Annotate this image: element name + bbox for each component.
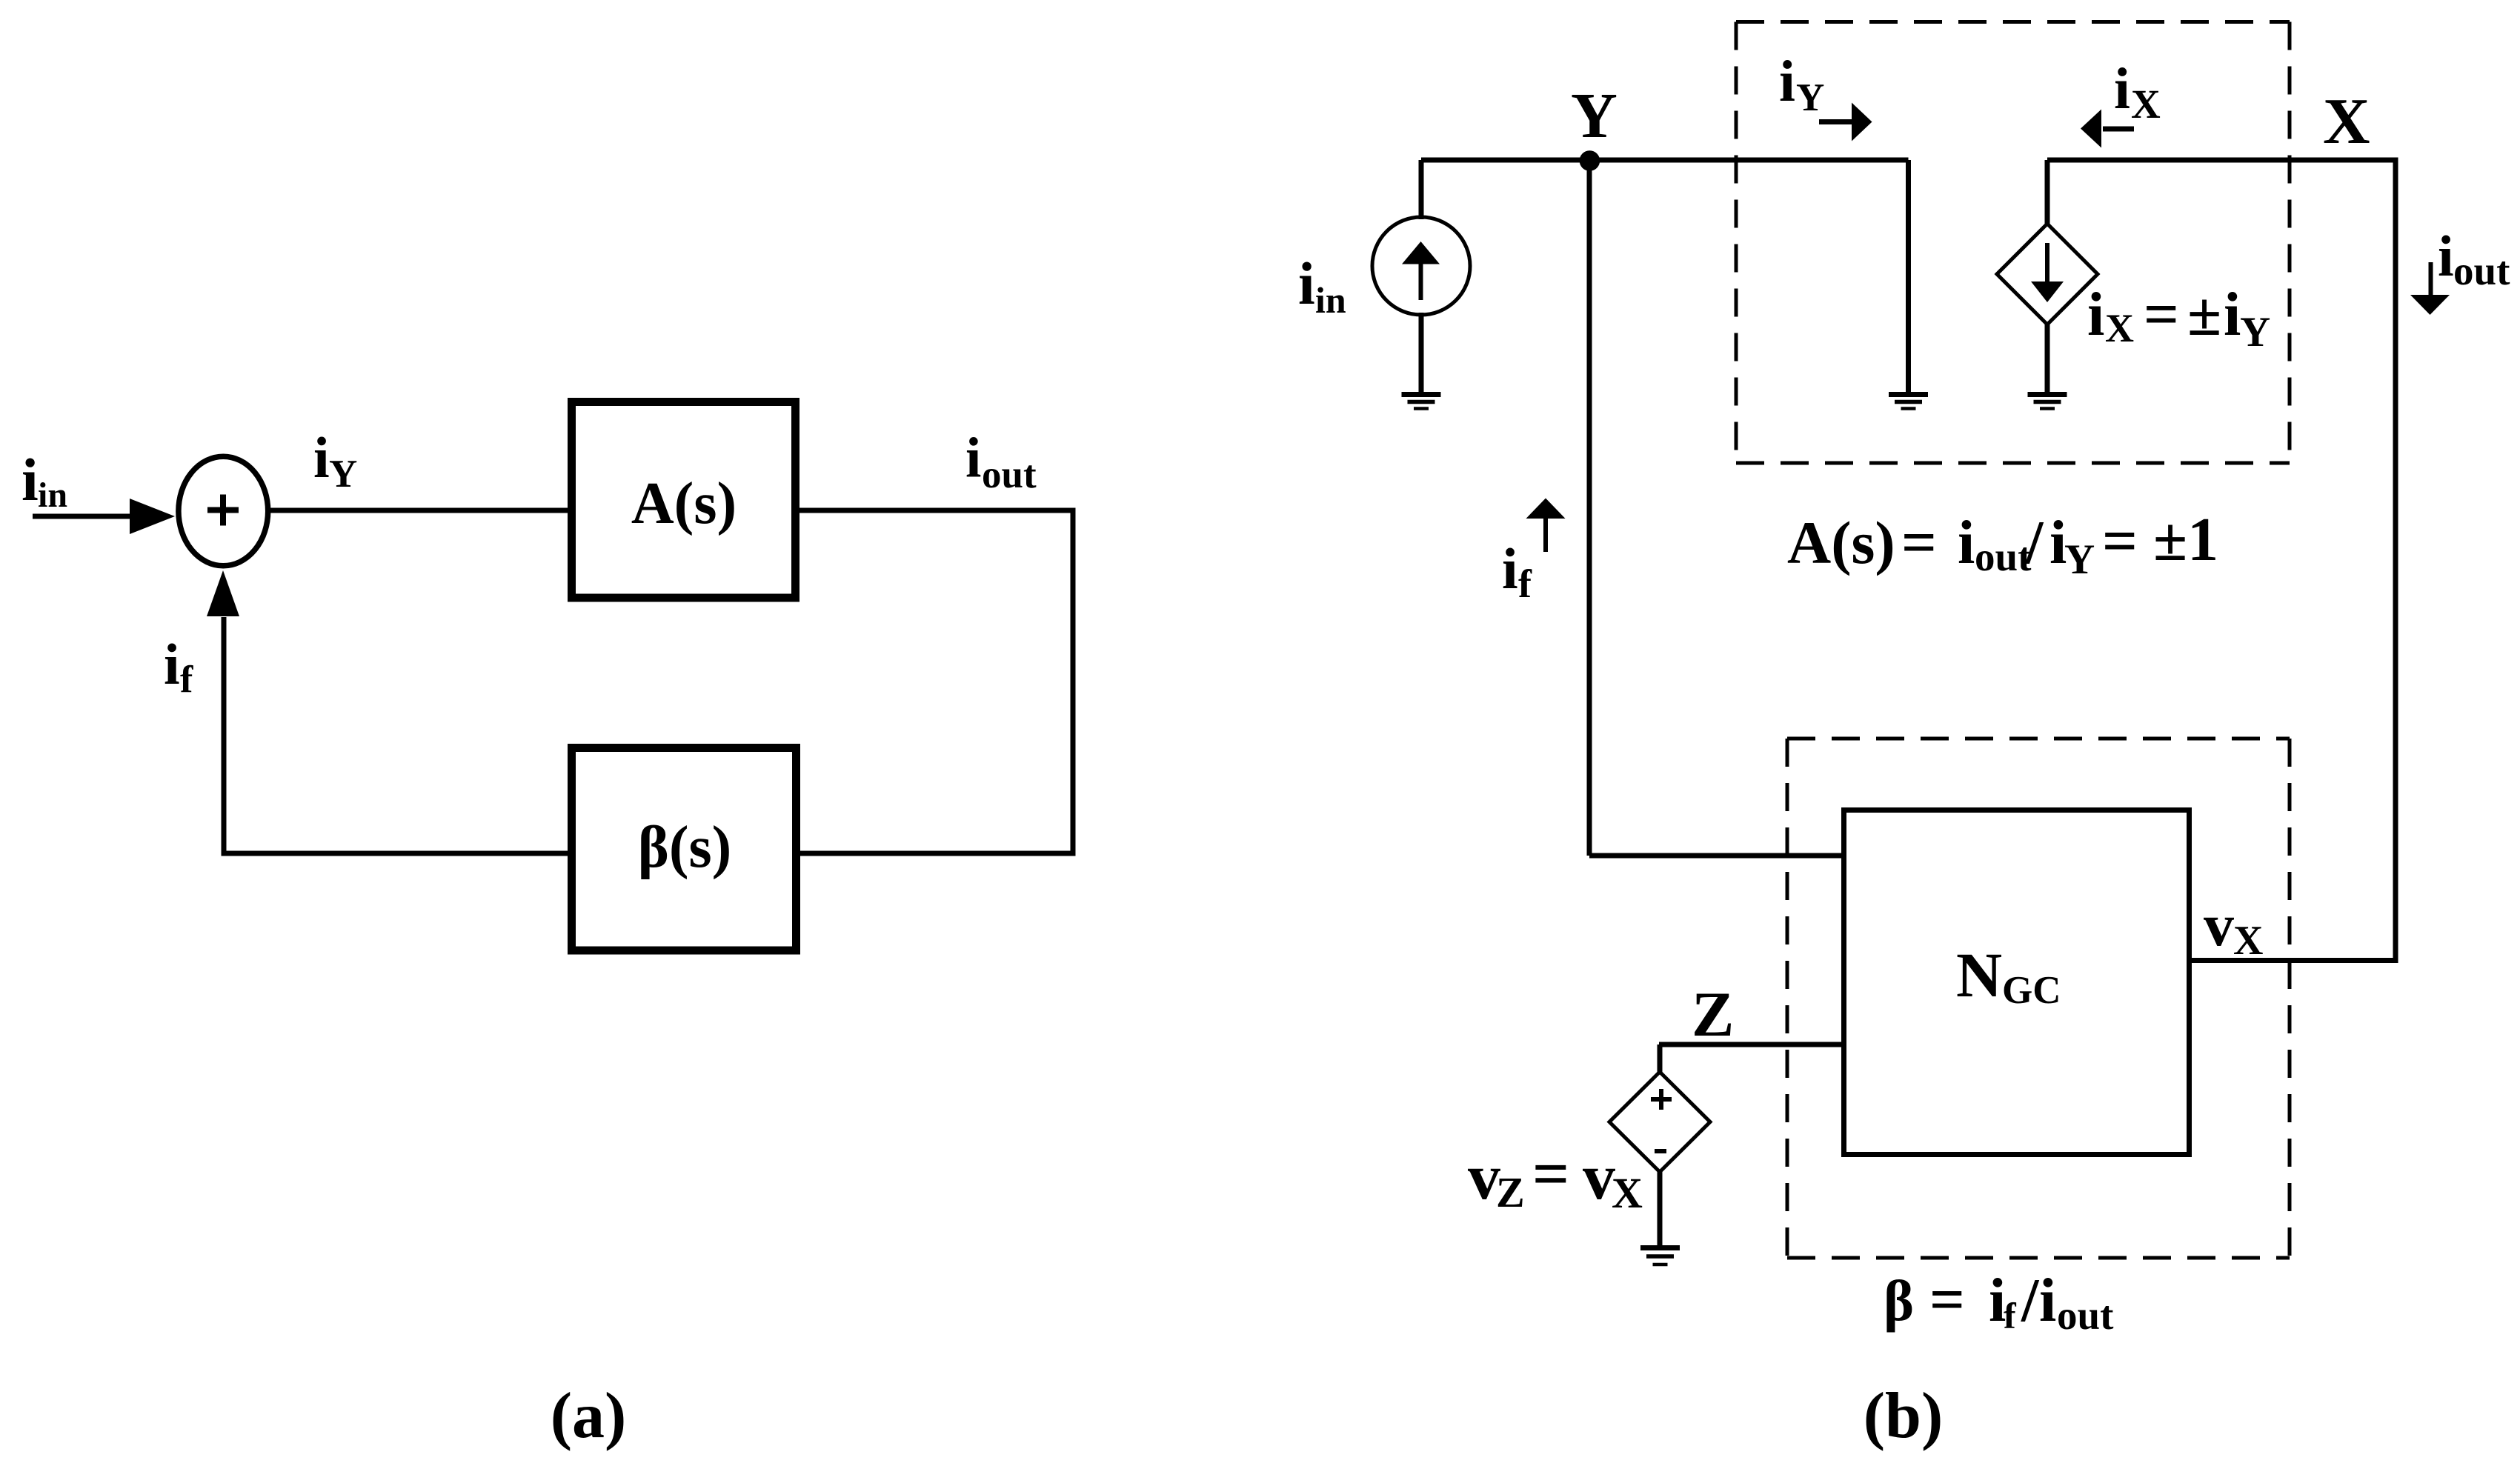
svg-text:β(s): β(s) [638,815,732,880]
wire Z [1659,1042,1844,1047]
svg-text:GC: GC [2002,969,2061,1012]
ground of i_Y stub [1889,395,1928,409]
svg-text:Y: Y [2240,309,2270,356]
wire Y down to feedback [1587,160,1592,856]
label i_in (b) [1298,250,1346,321]
svg-text:v: v [1583,1142,1615,1213]
formula beta = if/iout [1884,1265,2114,1338]
svg-text:i: i [965,426,981,490]
svg-text:(b): (b) [1864,1380,1944,1452]
label i_in (a) [21,446,67,515]
label i_f (a) [164,632,193,701]
feedback wire beta to summing [224,617,568,853]
svg-text:i: i [2224,280,2241,349]
summing junction + [179,456,268,566]
svg-text:v: v [2204,891,2234,959]
svg-text:out: out [1975,534,2032,579]
svg-text:f: f [2004,1295,2017,1336]
svg-text:i: i [21,446,39,513]
dependent current source diamond [1997,224,2098,324]
svg-text:(a): (a) [551,1380,627,1452]
arrow i_Y right [1819,103,1872,141]
label v_X [2204,891,2263,964]
svg-text:X: X [1612,1169,1643,1217]
svg-text:X: X [2105,306,2134,350]
svg-text:i: i [2438,224,2454,288]
block N_GC [1844,810,2190,1155]
wire feedback to N_GC [1589,853,1844,859]
block A(s) [572,402,796,599]
dashed box A(s) network [1736,22,2290,464]
label i_f (b) [1502,536,1532,606]
svg-text:/: / [2025,508,2044,577]
current source i_in circle [1372,217,1470,315]
svg-text:=: = [2144,280,2179,349]
svg-text:in: in [1315,279,1346,321]
svg-text:Y: Y [329,453,357,496]
label i_out (b) [2438,224,2510,293]
arrow i_f (b) [1526,499,1566,553]
svg-text:Z: Z [1692,979,1734,1050]
label v_Z = v_X [1468,1139,1643,1217]
ground under i_in [1402,395,1441,409]
svg-text:=: = [1901,508,1937,577]
svg-text:i: i [1502,536,1518,601]
wire v_X [2192,958,2396,963]
svg-text:Y: Y [1571,79,1618,151]
svg-text:A(s): A(s) [631,471,737,536]
ground of v_Z source [1640,1248,1680,1265]
svg-text:Y: Y [2064,536,2095,583]
arrow i_out down [2410,262,2450,315]
label i_out (a) [965,426,1037,496]
label N_GC [1956,939,2061,1012]
svg-text:Y: Y [1796,76,1824,119]
svg-text:i: i [1958,508,1975,577]
svg-text:/: / [2021,1266,2040,1335]
dashed box beta network [1787,739,2290,1258]
svg-text:out: out [2057,1293,2114,1338]
ground of dependent current source [2028,395,2067,409]
wire to dependent source top [2045,160,2050,225]
label i_Y (b) [1779,50,1824,119]
svg-text:out: out [2453,248,2510,293]
svg-text:out: out [982,453,1037,496]
node Y dot [1580,150,1600,171]
svg-text:f: f [180,659,193,701]
wire below dependent current source [2045,324,2050,394]
svg-text:X: X [2131,81,2161,127]
label i_X [2114,57,2161,127]
svg-text:i: i [164,632,180,696]
arrow i_X left [2081,110,2134,148]
svg-text:±: ± [2187,280,2221,349]
svg-text:in: in [38,476,67,515]
wire summing to A(s) [270,508,571,513]
arrowhead input (a) [130,499,175,534]
block beta(s) [572,748,797,951]
dependent voltage source v_Z [1609,1044,1710,1172]
label i_X = +-i_Y [2087,280,2270,356]
wire source bottom [1419,313,1424,394]
svg-text:i: i [2114,57,2130,121]
wire A(s) output to beta input (right loop) [799,510,1073,853]
svg-text:i: i [2087,280,2104,349]
svg-text:=: = [1929,1265,1965,1334]
svg-text:=: = [2102,507,2138,576]
svg-text:A(s): A(s) [1787,509,1895,576]
formula A(s) = iout/iY = +-1 [1787,505,2218,583]
svg-text:Z: Z [1496,1168,1525,1216]
wire below v_Z source [1658,1172,1663,1247]
svg-text:N: N [1956,939,2002,1010]
label i_Y (a) [313,425,357,496]
main wire X segment [2047,160,2396,961]
svg-text:i: i [1779,50,1795,114]
svg-text:f: f [1518,562,1532,606]
svg-text:X: X [2233,918,2263,964]
svg-text:i: i [1298,250,1315,317]
wire i_Y stub down [1906,160,1911,394]
main wire Y segment [1421,158,1909,163]
svg-text:i: i [2039,1266,2056,1335]
svg-text:=: = [1532,1139,1569,1210]
svg-text:β: β [1884,1268,1914,1333]
svg-text:X: X [2323,86,2370,158]
svg-text:±1: ±1 [2153,505,2218,574]
wire source top [1419,160,1424,219]
svg-text:i: i [313,425,330,490]
arrowhead i_f (a) [207,570,239,616]
wire input (a) [33,514,133,519]
